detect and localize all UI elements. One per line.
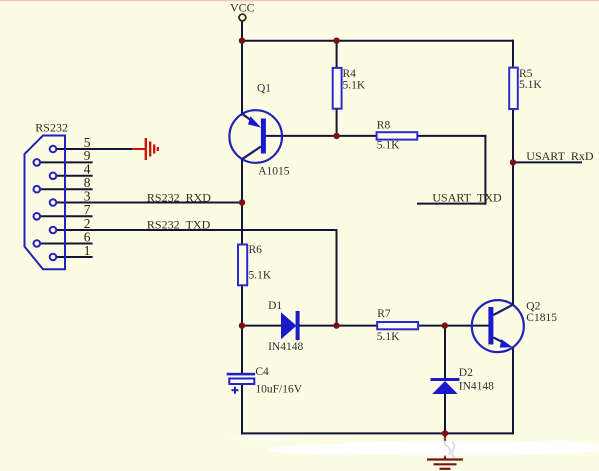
- svg-text:10uF/16V: 10uF/16V: [255, 384, 302, 396]
- svg-text:D1: D1: [268, 300, 282, 312]
- svg-text:R4: R4: [343, 68, 357, 80]
- svg-text:5.1K: 5.1K: [249, 270, 272, 282]
- svg-text:R5: R5: [519, 68, 533, 80]
- svg-text:5.1K: 5.1K: [519, 79, 542, 91]
- svg-text:RS232 TXD: RS232 TXD: [147, 218, 211, 232]
- svg-text:R6: R6: [249, 244, 263, 256]
- svg-text:R8: R8: [377, 119, 391, 131]
- svg-text:RS232 RXD: RS232 RXD: [147, 191, 211, 205]
- svg-text:RS232: RS232: [35, 121, 68, 135]
- svg-text:VCC: VCC: [230, 0, 255, 14]
- svg-text:USART RxD: USART RxD: [526, 149, 594, 163]
- svg-text:Q1: Q1: [257, 83, 271, 95]
- svg-text:C4: C4: [255, 366, 269, 378]
- svg-text:Q2: Q2: [526, 301, 540, 313]
- svg-text:5.1K: 5.1K: [377, 140, 400, 152]
- svg-text:D2: D2: [459, 367, 473, 379]
- svg-text:5.1K: 5.1K: [343, 80, 366, 92]
- svg-text:USART TXD: USART TXD: [432, 190, 502, 204]
- svg-text:3: 3: [84, 188, 91, 203]
- svg-text:A1015: A1015: [258, 166, 290, 178]
- svg-text:IN4148: IN4148: [459, 380, 494, 392]
- svg-text:1: 1: [84, 243, 91, 258]
- svg-text:C1815: C1815: [526, 312, 557, 324]
- svg-text:5.1K: 5.1K: [377, 331, 400, 343]
- svg-text:IN4148: IN4148: [268, 341, 303, 353]
- svg-text:R7: R7: [377, 308, 391, 320]
